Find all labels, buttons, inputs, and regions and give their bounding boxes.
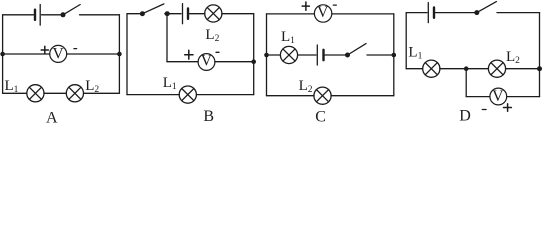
svg-text:L1: L1 xyxy=(5,78,19,95)
svg-text:D: D xyxy=(459,108,471,125)
svg-text:V: V xyxy=(53,45,65,62)
svg-text:B: B xyxy=(203,108,214,125)
svg-text:A: A xyxy=(46,109,58,126)
svg-text:L1: L1 xyxy=(163,75,177,92)
svg-text:V: V xyxy=(201,53,213,70)
svg-text:L2: L2 xyxy=(506,49,520,66)
svg-text:L1: L1 xyxy=(281,29,295,46)
svg-text:C: C xyxy=(315,109,326,126)
svg-text:V: V xyxy=(317,4,329,21)
svg-text:L2: L2 xyxy=(85,78,99,95)
svg-text:L2: L2 xyxy=(299,78,313,95)
svg-text:L2: L2 xyxy=(205,27,219,44)
svg-text:V: V xyxy=(492,88,504,105)
svg-text:L1: L1 xyxy=(408,45,422,62)
